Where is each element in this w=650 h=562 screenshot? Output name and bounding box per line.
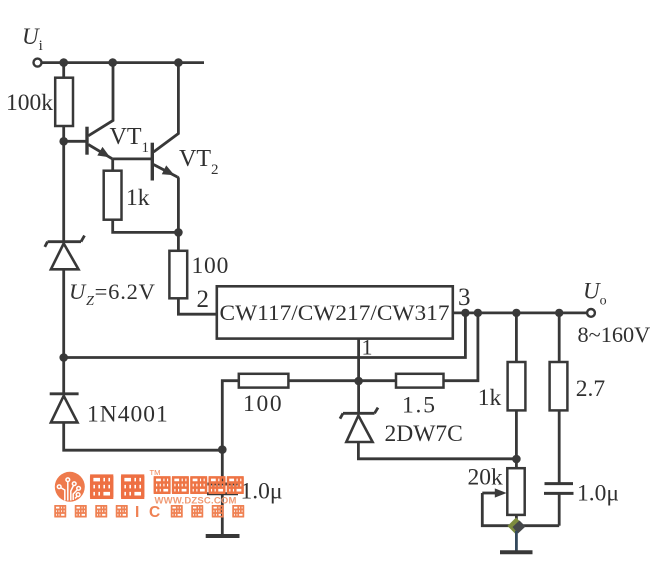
wire: [515, 459, 518, 468]
wire 2DW7C top: [357, 381, 360, 414]
resistor 1k (base): [104, 171, 122, 220]
node pin3 c: [512, 309, 520, 317]
svg-text:1N4001: 1N4001: [87, 402, 169, 428]
svg-text:VT1: VT1: [110, 124, 150, 156]
resistor 1k (divider): [508, 362, 526, 410]
wire left rail bottom: [64, 422, 223, 450]
svg-text:1.0μ: 1.0μ: [577, 481, 619, 507]
svg-text:100k: 100k: [6, 90, 53, 116]
svg-text:100: 100: [192, 253, 230, 279]
svg-text:C: C: [149, 504, 160, 521]
svg-text:VT2: VT2: [179, 146, 219, 178]
node pot bottom dark: [513, 521, 526, 534]
svg-text:2.7: 2.7: [576, 376, 606, 402]
svg-text:Uo: Uo: [583, 279, 607, 309]
wire: [62, 126, 65, 141]
svg-text:CW117/CW217/CW317: CW117/CW217/CW317: [220, 300, 450, 325]
resistor 100 (series): [169, 251, 187, 298]
wire 2.7 top: [558, 313, 561, 362]
transistor VT1: [87, 63, 113, 159]
svg-text:1k: 1k: [126, 185, 150, 211]
wire: [62, 63, 65, 78]
watermark dianzi shichang wang glyphs: [154, 477, 244, 492]
resistor 100 (adj lower): [239, 374, 289, 388]
wire emitter VT2 down: [177, 178, 180, 233]
diode VD2 1N4001: [50, 394, 79, 423]
watermark logo circle: [55, 472, 85, 502]
node emitter VT2 / 1k junction: [174, 228, 183, 237]
wire left rail upper: [62, 141, 65, 241]
svg-text:20k: 20k: [468, 465, 504, 491]
node top rail B: [108, 58, 117, 67]
resistor 1.5: [396, 374, 444, 388]
watermark ku glyph: [121, 476, 144, 497]
wire 1k top: [515, 313, 518, 362]
capacitor C2 1.0u: [544, 484, 574, 494]
wire: [359, 379, 396, 382]
wire sense line to left rail: [64, 313, 466, 358]
node pin3 a: [461, 309, 469, 317]
zener diode 2DW7C: [340, 408, 378, 442]
wire: [288, 379, 358, 382]
svg-text:3: 3: [458, 284, 471, 311]
resistor 2.7: [550, 362, 568, 410]
svg-text:Ui: Ui: [22, 24, 43, 54]
node top rail A: [59, 58, 68, 67]
wire pin 3 out: [453, 311, 587, 314]
ground right: [500, 550, 533, 554]
wire top rail: [42, 61, 204, 64]
node pot bottom (olive artifact): [508, 518, 525, 535]
svg-text:1k: 1k: [478, 385, 502, 411]
svg-text:I: I: [135, 504, 139, 521]
wire: [113, 220, 179, 233]
resistor 100k: [55, 78, 73, 126]
IC U1 CW117/CW217/CW317: [217, 286, 453, 338]
wire left rail mid: [62, 269, 65, 394]
wire pin 1: [357, 339, 360, 381]
svg-text:1: 1: [362, 335, 373, 360]
svg-text:TM: TM: [150, 468, 161, 477]
terminal Ui: [34, 59, 42, 67]
wire emitter VT1 to base VT2: [113, 157, 152, 160]
wire ground stem: [515, 531, 518, 552]
wire pot bottom: [515, 515, 518, 521]
wire cap C1 top leg: [221, 450, 224, 484]
wire: [64, 140, 86, 143]
wire cap C2 bottom: [558, 493, 561, 525]
watermark wei glyph: [90, 476, 113, 497]
wire 1k bottom: [515, 410, 518, 459]
watermark bottom row glyphs: [54, 506, 244, 517]
node top rail C: [174, 58, 183, 67]
wire: [177, 232, 180, 250]
wire: [111, 159, 114, 171]
svg-text:1.5: 1.5: [402, 393, 437, 419]
node base VT1: [59, 137, 68, 146]
wire 100 ohm left leg: [222, 381, 239, 450]
wire 1.5 to output: [444, 313, 478, 381]
svg-text:8~160V: 8~160V: [578, 322, 650, 347]
wire cap C1 bottom: [221, 494, 224, 536]
ground left: [206, 534, 240, 538]
svg-text:UZ=6.2V: UZ=6.2V: [69, 279, 156, 309]
node left rail sense: [59, 353, 68, 362]
wire 2DW7C bottom: [358, 442, 516, 459]
svg-text:1.0μ: 1.0μ: [241, 479, 283, 505]
node pin3 b: [474, 309, 482, 317]
potentiometer RP 20k: [482, 468, 524, 526]
zener diode VD1 Uz=6.2V: [45, 236, 85, 270]
terminal Uo: [587, 309, 595, 317]
wire 2.7 to cap: [558, 410, 561, 483]
wire to pin 2: [178, 298, 216, 314]
svg-text:WWW.DZSC.COM: WWW.DZSC.COM: [155, 496, 237, 507]
node cap C1 top: [218, 445, 227, 454]
svg-text:100: 100: [243, 391, 283, 417]
capacitor C1 1.0u: [207, 484, 238, 494]
wire bottom node to cap: [521, 524, 559, 527]
svg-text:2: 2: [197, 286, 210, 313]
node pot top: [512, 455, 521, 464]
svg-text:2DW7C: 2DW7C: [385, 421, 463, 447]
node adj: [354, 377, 363, 386]
transistor VT2: [152, 63, 178, 181]
node pin3 d: [555, 309, 563, 317]
